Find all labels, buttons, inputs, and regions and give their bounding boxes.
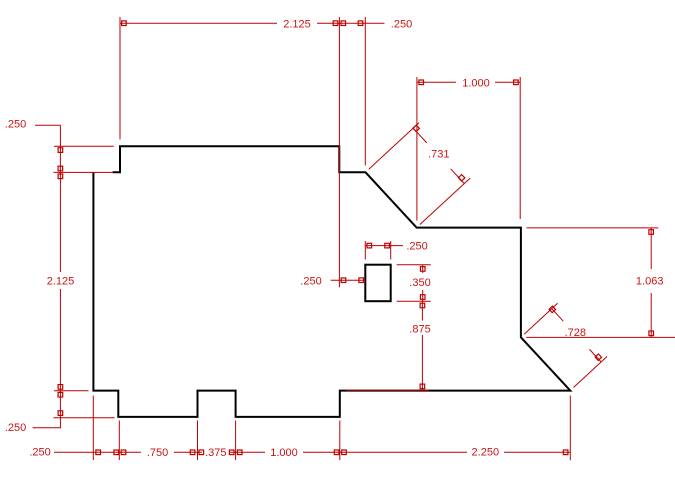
svg-text:.731: .731 <box>428 148 449 160</box>
svg-text:.375: .375 <box>205 447 226 459</box>
svg-text:1.000: 1.000 <box>462 78 490 90</box>
svg-text:.350: .350 <box>409 277 430 289</box>
svg-text:1.063: 1.063 <box>636 276 664 288</box>
bottom dimension .250: text <box>29 447 50 459</box>
dimension .875: arrow squares <box>420 303 425 389</box>
left dimension .250 top: arrow squares <box>58 148 63 171</box>
left dimension .250 bottom: extension lines <box>53 391 114 418</box>
dimension .350: dimension line stubs <box>422 265 424 302</box>
svg-text:.250: .250 <box>391 19 412 31</box>
dimension .728 aligned: dimension line <box>552 309 601 362</box>
dimension .250 top: extension line at x=365.3 <box>364 17 366 166</box>
dimension .731 aligned: extension lines <box>369 123 470 225</box>
bottom dimensions: arrow squares <box>96 450 568 455</box>
left dimension .250 bottom leader: text <box>5 422 26 434</box>
svg-text:.875: .875 <box>409 324 430 336</box>
dimension 2.125 top: arrow squares <box>122 21 338 26</box>
dimension .731 aligned: dimension line <box>413 128 464 183</box>
left dimension 2.125: text <box>47 276 75 288</box>
dimension .250 top: text <box>391 19 412 31</box>
dimension 1.000 top right: dimension line <box>417 81 520 83</box>
svg-text:.250: .250 <box>5 422 26 434</box>
bottom dimension .375: text <box>205 447 226 459</box>
dimension .731 aligned: text <box>428 148 449 160</box>
bottom dimension 2.250: text <box>472 447 500 459</box>
bottom dimension .750: text <box>147 447 168 459</box>
dimension .731 aligned: arrow diamonds <box>413 125 465 181</box>
rect hole dimension .250 top: extension lines <box>365 241 390 260</box>
dimension .728 aligned: arrow diamonds <box>549 306 602 360</box>
bottom dimensions: dimension line <box>54 451 570 453</box>
rectangular hole <box>365 265 390 302</box>
rect hole dimension .250 top: arrow squares <box>367 243 389 248</box>
dimension 1.063 right: text <box>636 276 664 288</box>
dimension 1.063 right: dimension line <box>650 228 652 338</box>
rect hole dimension .250 top: text <box>406 241 427 253</box>
left dimensions: leader and dimension line at x=60.4 <box>33 125 61 428</box>
dimension 2.125 top: text <box>283 18 311 30</box>
dimension .875: text <box>409 324 430 336</box>
bottom dimensions: extension lines <box>93 396 570 461</box>
dimension .350: arrow squares <box>420 267 425 300</box>
svg-text:.250: .250 <box>29 447 50 459</box>
svg-text:.728: .728 <box>565 327 586 339</box>
rect hole dimension .250 left: arrow squares <box>341 278 363 283</box>
dimension .350: text <box>409 277 430 289</box>
bottom dimension 1.000: text <box>270 447 298 459</box>
dimension 1.000 top right: extension lines <box>417 77 520 221</box>
dimension 1.000 top right: arrow squares <box>419 80 518 85</box>
dimension .875: dimension line <box>421 301 423 390</box>
svg-text:2.250: 2.250 <box>472 447 500 459</box>
rect hole dimension .250 left: dimension line <box>331 279 366 281</box>
svg-text:.250: .250 <box>300 276 321 288</box>
svg-text:2.125: 2.125 <box>47 276 75 288</box>
dimension 1.063 right: arrow squares <box>649 230 654 336</box>
svg-text:2.125: 2.125 <box>283 18 311 30</box>
left dimension .250 bottom: arrow squares <box>58 392 63 415</box>
svg-text:.250: .250 <box>406 241 427 253</box>
left dimension .250 top: text <box>5 118 26 130</box>
dimension .250 top: arrow squares <box>341 21 363 26</box>
dimension 1.000 top right: text <box>462 78 490 90</box>
rect hole dimension .250 top: dimension line <box>365 245 403 247</box>
dimension 1.063 right: extension lines <box>526 228 675 338</box>
dimension 2.125 top: dimension line <box>120 22 385 24</box>
rect hole dimension .250 left: text <box>300 276 321 288</box>
part outline <box>93 146 570 417</box>
left dimension 2.125: arrow squares <box>58 174 63 389</box>
svg-text:.250: .250 <box>5 118 26 130</box>
left dimension .250 top: extension lines <box>53 146 113 172</box>
dimension 2.125 top: extension line at x=120 <box>119 17 121 139</box>
dimension .350: extension lines <box>397 265 431 302</box>
svg-text:.750: .750 <box>147 447 168 459</box>
dimension .728 aligned: text <box>565 327 586 339</box>
dimension 2.125/.250 top: shared extension line at x=339.4 <box>338 17 340 287</box>
dimension .728 aligned: extension lines <box>524 303 607 387</box>
dimension .875: bottom extension line over part edge <box>346 389 429 391</box>
svg-text:1.000: 1.000 <box>270 447 298 459</box>
